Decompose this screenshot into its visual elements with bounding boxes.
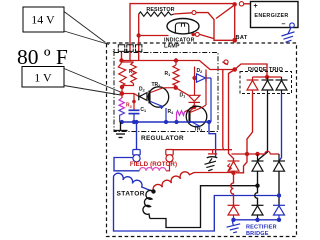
resistor R1 (173, 60, 179, 88)
node rail col2 (255, 152, 259, 156)
condenser capacitor (205, 150, 218, 171)
column 1 with hops (231, 171, 234, 205)
wire TR2 emitter to bus (165, 108, 167, 122)
terminal 2 connector (118, 45, 124, 52)
terminal circle field feed (224, 60, 228, 64)
wire lamp right lead (192, 33, 195, 35)
node phase1 (231, 171, 236, 176)
wire terminal 2 to R2 (121, 53, 123, 61)
wire TR2 collector to R1 bottom (163, 87, 176, 89)
resistor R2 (two branches) (118, 61, 136, 99)
wire rail terminal stub (223, 62, 228, 65)
wire trio output black down (259, 94, 268, 162)
terminal 1 connector (127, 45, 133, 52)
stator winding black (143, 190, 154, 218)
svg-text:ENERGIZER: ENERGIZER (254, 13, 288, 19)
wire regulator supply rail (122, 61, 235, 70)
field rotor coil (140, 167, 166, 170)
wire D1 bottom to TR1 base (190, 107, 194, 112)
svg-text:80 º F: 80 º F (17, 45, 68, 69)
diode D1 (189, 95, 201, 107)
wire D1 bottom to R4 (185, 107, 195, 112)
svg-text:BRIDGE: BRIDGE (246, 231, 269, 237)
brush left (133, 150, 140, 162)
wire resistor right lead (174, 13, 192, 14)
wire slip ring loop left (114, 158, 140, 171)
energizer battery box (251, 2, 299, 29)
column 2 with hop (255, 171, 258, 205)
svg-text:BAT: BAT (236, 35, 248, 41)
stator winding blue (114, 173, 154, 191)
node R1 top (174, 58, 178, 62)
wire lamp left lead (141, 35, 169, 37)
node zener tap (192, 76, 196, 80)
trio junction (253, 76, 282, 78)
rectifier bottom rail (234, 219, 280, 221)
wire TR1 collector up (205, 70, 207, 106)
resistor R3 (119, 98, 124, 109)
wire right slip ring to coil (166, 162, 170, 171)
regulator top rail (122, 61, 268, 78)
svg-text:STATOR: STATOR (117, 190, 145, 197)
wire field feed from fork (222, 70, 225, 150)
wire terminal 1 riser and top rail to battery (130, 4, 235, 61)
ground battery negative (282, 28, 295, 43)
rectifier diode top 2 (black) (252, 154, 264, 171)
wire R1 bottom to D1 (176, 88, 189, 96)
resistor RESISTOR zigzag (139, 12, 174, 16)
indicator lamp (167, 19, 199, 34)
terminal circle battery negative (290, 23, 295, 28)
wire regulator to left brush (136, 122, 138, 150)
resistor R4 (177, 111, 185, 122)
wire resistor junction to BAT node (196, 13, 232, 41)
svg-text:LAMP: LAMP (164, 43, 180, 49)
rectifier diode bottom 3 (blue) (273, 205, 285, 220)
wire hop squiggle (228, 164, 232, 172)
node BAT junction (232, 38, 237, 43)
regulator box (dash-dot) (114, 53, 218, 132)
callout box 14V (23, 7, 64, 32)
svg-text:14 V: 14 V (31, 13, 55, 27)
node lamp right junction (191, 33, 195, 37)
rectifier diode top 1 (red) (228, 161, 240, 171)
diode trio box (240, 72, 292, 94)
rectifier diode bottom 1 (red) (228, 205, 240, 220)
column 3 (278, 171, 280, 205)
rectifier diode top 3 (black) (273, 154, 285, 171)
wire trio output blue down (279, 94, 282, 162)
rectifier diode bottom 2 (black) (252, 205, 264, 220)
node top junction (233, 2, 237, 6)
node stator center (151, 189, 155, 193)
wire trio output red down (236, 94, 253, 173)
leader lines from 1V box (64, 69, 121, 96)
node lamp left junction (137, 33, 141, 37)
node R2 top (119, 58, 123, 62)
svg-text:FIELD (ROTOR): FIELD (ROTOR) (130, 161, 177, 168)
brush right (166, 150, 173, 162)
svg-text:+: + (254, 3, 258, 10)
svg-text:REGULATOR: REGULATOR (141, 135, 184, 142)
node fork junction (232, 67, 237, 72)
wire stator phase black (150, 186, 258, 228)
wire top rail battery loop (130, 4, 235, 61)
wire link to energizer (244, 3, 251, 5)
svg-text:RESISTOR: RESISTOR (146, 7, 174, 13)
transistor TR2 (148, 87, 168, 109)
node rail trio red (245, 152, 249, 156)
node phase2 (255, 184, 259, 188)
zener D2 right (195, 74, 212, 122)
node D1 bottom (192, 105, 196, 109)
wire stator phase blue (114, 177, 280, 232)
terminal circle lamp right (195, 32, 199, 36)
svg-text:DIODE TRIO: DIODE TRIO (248, 67, 284, 73)
svg-text:1: 1 (125, 48, 128, 54)
wire regulator ground to case (209, 122, 216, 157)
callout box 1V (22, 67, 64, 88)
capacitor C1 (129, 94, 140, 123)
terminal lamp connector (136, 45, 142, 52)
zener D2 left (139, 93, 150, 101)
svg-text:–: – (282, 21, 286, 28)
stator winding red (153, 172, 194, 192)
wire lamp to BAT riser (200, 34, 214, 38)
wire fork to diode trio output (235, 64, 267, 77)
ground rectifier (225, 218, 242, 234)
transistor TR1 (186, 105, 207, 128)
wire stator phase red (194, 172, 232, 174)
rectifier top rail (232, 151, 280, 154)
node R1 bottom (174, 86, 178, 90)
trio diode 2 (black) (262, 77, 274, 94)
trio diode 1 (red) (247, 77, 259, 94)
svg-text:2: 2 (113, 48, 116, 54)
node divider (1V point) (120, 91, 125, 96)
terminal circle resistor right (192, 11, 196, 15)
ground regulator case (114, 122, 128, 138)
leader lines from 14V box (64, 12, 109, 45)
regulator ground bus (120, 121, 211, 123)
svg-text:RECTIFIER: RECTIFIER (246, 225, 277, 231)
wire riser D1 top (194, 67, 196, 96)
svg-text:1 V: 1 V (34, 71, 52, 85)
wire lamp-resistor left riser (138, 14, 140, 61)
node bus dots (120, 120, 211, 124)
wire diagonal top node to resistor junction (216, 5, 235, 19)
node phase3 (277, 193, 281, 197)
wire divider to zener (122, 94, 139, 97)
wire battery positive down to BAT node (234, 4, 236, 40)
trio diode 3 (black) (276, 77, 288, 94)
alternator case (dashed) (107, 43, 297, 237)
terminal circle battery positive (239, 2, 243, 6)
node R2 bottom (120, 85, 124, 89)
wire BAT feed to rectifier (229, 70, 235, 162)
